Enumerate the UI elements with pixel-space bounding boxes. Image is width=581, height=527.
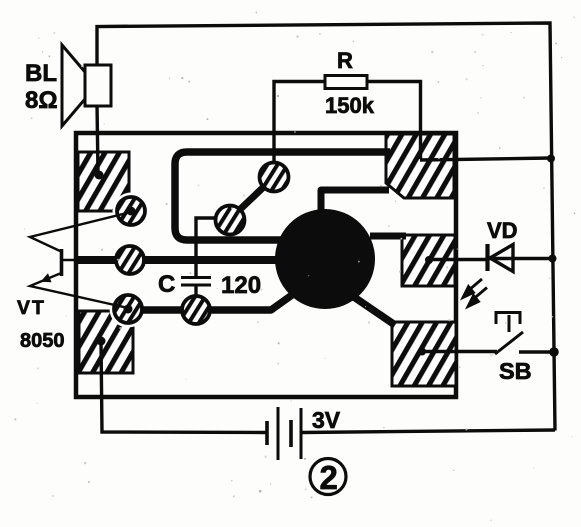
svg-text:120: 120 [221, 272, 261, 299]
svg-text:VD: VD [487, 218, 518, 243]
svg-text:8050: 8050 [20, 330, 65, 352]
svg-text:VT: VT [17, 297, 46, 319]
svg-text:C: C [158, 271, 175, 298]
svg-text:R: R [337, 48, 353, 73]
svg-text:SB: SB [499, 358, 532, 384]
svg-text:150k: 150k [325, 93, 375, 118]
svg-text:BL: BL [25, 60, 57, 87]
svg-text:3V: 3V [312, 407, 341, 433]
svg-text:2: 2 [320, 459, 338, 496]
svg-text:8Ω: 8Ω [25, 87, 58, 114]
